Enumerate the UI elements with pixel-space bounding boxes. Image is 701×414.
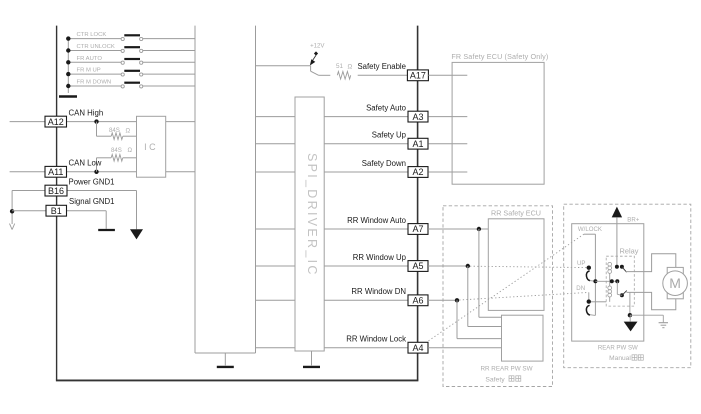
svg-text:A17: A17 xyxy=(410,71,426,81)
svg-text:Ω: Ω xyxy=(348,63,353,70)
node switch bus junction 5 xyxy=(66,84,70,88)
wire stub to FR Safety ECU at y=75.3 xyxy=(428,74,467,76)
wire RR Window DN net xyxy=(256,299,409,301)
wire Safety Enable from junction box xyxy=(256,65,311,67)
svg-text:Ω: Ω xyxy=(126,127,131,134)
svg-text:CTR UNLOCK: CTR UNLOCK xyxy=(77,44,115,50)
wire Signal GND1 B1 right xyxy=(67,210,107,212)
inductor relay coil L2 xyxy=(608,286,612,290)
wire bottom border xyxy=(56,379,419,381)
wire switch bank bus xyxy=(67,39,69,93)
wire RR Window Lock dotted continuation xyxy=(429,234,584,341)
wire BR+ rail xyxy=(616,217,618,266)
svg-text:CTR LOCK: CTR LOCK xyxy=(77,32,107,38)
svg-text:51: 51 xyxy=(336,63,344,70)
svg-text:B16: B16 xyxy=(48,186,64,196)
wire stub to FR Safety ECU at y=116.6 xyxy=(428,116,467,118)
svg-text:Safety Enable: Safety Enable xyxy=(357,62,406,71)
motor M housing xyxy=(667,267,683,298)
switch SW3 FR AUTO xyxy=(68,56,195,64)
wire CAN Low A11 to IC xyxy=(67,171,137,173)
ground SPI driver xyxy=(311,351,313,365)
switch SW4 FR M UP xyxy=(68,68,195,76)
node pin A7 xyxy=(408,224,428,235)
switch SW5 FR M DOWN xyxy=(68,80,195,88)
wire A5 out xyxy=(428,265,468,267)
wire A4 to RR REAR PW SW xyxy=(428,347,501,349)
wire Safety Down net xyxy=(256,171,409,173)
RR Safety ECU dashed boundary xyxy=(443,206,553,387)
svg-text:Ω: Ω xyxy=(128,147,133,154)
node pin A17 xyxy=(407,70,428,81)
svg-text:Safety Auto: Safety Auto xyxy=(366,103,407,112)
svg-text:RR Window DN: RR Window DN xyxy=(351,287,406,296)
wire CAN High A12 to IC xyxy=(67,121,137,123)
svg-text:FR AUTO: FR AUTO xyxy=(77,56,103,62)
power BR+ triangle xyxy=(612,207,622,218)
node relay contact 2 pivot xyxy=(620,293,624,297)
wire RR Window DN dotted continuation xyxy=(459,292,589,300)
svg-text:FR M UP: FR M UP xyxy=(77,68,101,74)
power +12V diamond terminal xyxy=(314,51,318,55)
node pin A2 xyxy=(408,167,428,178)
wire motor high side xyxy=(626,254,676,272)
svg-text:Safety Down: Safety Down xyxy=(362,159,406,168)
switch UP contact arm xyxy=(586,271,590,281)
FR Safety ECU box xyxy=(452,62,544,184)
wire right terminal bus xyxy=(417,26,419,381)
svg-text:RR Window Auto: RR Window Auto xyxy=(347,216,407,225)
wire B1 left branch xyxy=(12,210,46,212)
wire resistor R1 branch xyxy=(96,122,98,137)
node CAN High junction xyxy=(94,119,98,123)
Manual rear switch dashed boundary xyxy=(564,204,691,368)
switch DN contact arm xyxy=(586,305,590,315)
ground switch bank bus bar xyxy=(59,95,77,97)
wire left border bus xyxy=(56,26,58,381)
node switch bus junction 1 xyxy=(66,36,70,40)
node pin A11 xyxy=(45,166,67,177)
node switch bus junction 4 xyxy=(66,72,70,76)
node tap arrowhead xyxy=(310,59,315,65)
wire B16 left branch xyxy=(12,190,45,192)
resistor R2 84S ohm xyxy=(111,155,123,162)
wire ground return xyxy=(629,292,631,315)
wire CAN Low IC to harness xyxy=(166,171,195,173)
wire +12V tap xyxy=(313,55,316,60)
svg-text:Safety: Safety xyxy=(485,376,505,383)
wire RR Window Auto net xyxy=(256,228,409,230)
wire A6 branch down xyxy=(456,300,458,338)
node A6 junction xyxy=(455,298,459,302)
wire junction box left edge xyxy=(194,26,196,353)
svg-text:Relay: Relay xyxy=(620,246,639,255)
node lock bar junction xyxy=(593,279,597,283)
switch relay contact 2 arm xyxy=(622,291,627,296)
wire Power GND1 B16 right xyxy=(67,190,137,192)
wire A6 out xyxy=(428,299,457,301)
svg-text:A2: A2 xyxy=(412,167,423,177)
node relay contact 1 throw xyxy=(620,265,624,269)
wire motor low side xyxy=(627,292,676,309)
node B16/B1 junction xyxy=(10,209,14,213)
node A11 CAN Low wire from left edge xyxy=(10,171,45,173)
node pin A3 xyxy=(408,111,428,122)
wire stub to FR Safety ECU at y=172.0 xyxy=(428,171,467,173)
node pin B1 xyxy=(46,205,67,216)
node off-page arrow down xyxy=(10,224,13,230)
RR REAR PW SW box xyxy=(502,315,544,361)
svg-text:A3: A3 xyxy=(412,112,423,122)
op-amp U2 SPI_DRIVER_IC xyxy=(295,97,324,351)
node ground junction xyxy=(628,313,632,317)
wire stub to FR Safety ECU at y=143.7 xyxy=(428,143,467,145)
node UP contact xyxy=(587,266,591,270)
ground manual switch triangle xyxy=(624,322,638,332)
RR Safety ECU inner box xyxy=(488,219,544,311)
node pin A12 xyxy=(45,116,67,127)
svg-text:BR+: BR+ xyxy=(627,217,639,224)
svg-text:84S: 84S xyxy=(111,147,122,154)
svg-text:A1: A1 xyxy=(412,139,423,149)
svg-text:REAR PW SW: REAR PW SW xyxy=(598,345,638,352)
wire junction box right edge xyxy=(255,26,257,353)
node CAN Low junction xyxy=(94,170,98,174)
node A12 CAN High wire from left edge xyxy=(10,121,45,123)
wire RR Window Up net xyxy=(256,265,409,267)
wire RR Window Up dotted continuation xyxy=(470,266,587,267)
switch SW2 CTR UNLOCK xyxy=(68,44,195,52)
svg-text:M: M xyxy=(669,275,681,291)
wire lock bar bracket xyxy=(584,233,596,235)
node relay contact 1 pivot xyxy=(615,265,619,269)
svg-text:FR M DOWN: FR M DOWN xyxy=(77,80,112,86)
wire A5 branch down xyxy=(467,266,469,327)
node A7 junction xyxy=(477,227,481,231)
svg-text:Safety Up: Safety Up xyxy=(372,131,407,140)
wire DN contact to relay coil xyxy=(591,301,606,303)
switch SW1 CTR LOCK xyxy=(68,32,195,40)
ground Signal GND1 bar xyxy=(98,229,115,231)
svg-text:DN: DN xyxy=(576,285,585,292)
resistor R1 84S ohm xyxy=(111,133,123,140)
node pin A4 xyxy=(408,342,428,353)
ground junction box xyxy=(224,353,226,365)
REAR PW SW box xyxy=(572,224,644,341)
Relay dashed box xyxy=(606,256,634,306)
svg-text:UP: UP xyxy=(577,260,585,267)
switch relay contact 1 arm xyxy=(622,267,627,272)
wire A7 to RR Safety ECU xyxy=(428,228,488,230)
wire junction box bottom edge xyxy=(195,352,256,354)
motor M xyxy=(663,271,688,296)
svg-text:A6: A6 xyxy=(412,296,423,306)
op-amp U1 CAN transceiver IC xyxy=(137,116,166,177)
svg-text:84S: 84S xyxy=(109,127,120,134)
svg-text:A5: A5 xyxy=(412,261,423,271)
svg-text:CAN Low: CAN Low xyxy=(69,159,102,168)
svg-text:A7: A7 xyxy=(412,224,423,234)
node pin A1 xyxy=(408,138,428,149)
svg-text:SPI_DRIVER_IC: SPI_DRIVER_IC xyxy=(305,153,319,277)
ground Power GND1 triangle xyxy=(130,229,143,239)
wire CAN High IC to harness xyxy=(166,121,195,123)
node switch bus junction 2 xyxy=(66,48,70,52)
node coil junction 2 xyxy=(615,279,619,283)
node pin A5 xyxy=(408,261,428,272)
svg-text:IC: IC xyxy=(144,142,158,152)
wire A7 branch down xyxy=(478,229,480,317)
node switch bus junction 3 xyxy=(66,60,70,64)
svg-text:Manual: Manual xyxy=(609,355,631,362)
wire Safety Up net xyxy=(256,143,409,145)
node DN contact xyxy=(587,299,591,303)
svg-text:A12: A12 xyxy=(48,117,64,127)
node coil junction 1 xyxy=(610,279,614,283)
wire resistor R2 branch xyxy=(96,158,98,172)
svg-text:RR Window Lock: RR Window Lock xyxy=(346,335,406,344)
resistor R3 51 ohm xyxy=(337,72,350,80)
svg-text:+12V: +12V xyxy=(310,43,325,50)
inductor relay coil L1 xyxy=(608,262,612,266)
svg-text:RR REAR PW SW: RR REAR PW SW xyxy=(480,366,532,373)
svg-text:RR Window Up: RR Window Up xyxy=(353,253,407,262)
wire RR Window Lock net xyxy=(256,347,409,349)
node pin A6 xyxy=(408,295,428,306)
svg-text:FR Safety ECU (Safety Only): FR Safety ECU (Safety Only) xyxy=(451,52,548,61)
wire Safety Auto net xyxy=(256,116,409,118)
svg-text:CAN High: CAN High xyxy=(69,108,104,117)
svg-text:Power GND1: Power GND1 xyxy=(69,177,115,186)
wire Safety Enable jog xyxy=(310,66,312,71)
svg-text:RR Safety ECU: RR Safety ECU xyxy=(491,208,541,217)
node A5 junction xyxy=(466,264,470,268)
svg-text:A4: A4 xyxy=(412,343,423,353)
svg-text:W/LOCK: W/LOCK xyxy=(578,226,602,233)
ground earth symbol xyxy=(662,315,664,322)
svg-text:B1: B1 xyxy=(51,206,62,216)
wire relay common xyxy=(595,280,617,282)
node pin B16 xyxy=(45,185,67,196)
svg-text:Signal GND1: Signal GND1 xyxy=(69,197,115,206)
svg-text:A11: A11 xyxy=(48,167,63,177)
